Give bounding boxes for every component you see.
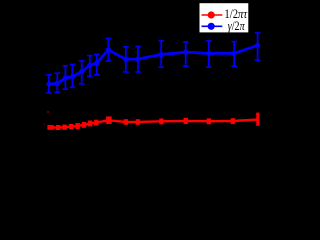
svg-text:γ/2π: γ/2π bbox=[228, 19, 245, 33]
red errorbar point 6 bbox=[82, 122, 86, 128]
legend blue sample line bbox=[202, 25, 223, 27]
blue errorbar point 12 bbox=[183, 42, 189, 66]
red errorbar point 13 bbox=[184, 118, 188, 124]
red errorbar point 3 bbox=[62, 125, 66, 130]
blue errorbar point 1 bbox=[46, 75, 52, 93]
red errorbar point 1 bbox=[47, 125, 53, 130]
red errorbar point 7 bbox=[88, 121, 92, 127]
stray red speck above red series start bbox=[47, 111, 48, 113]
red errorbar point 9 bbox=[106, 116, 112, 124]
faint red speck left of first red point bbox=[44, 124, 45, 125]
blue errorbar point 10 bbox=[135, 46, 141, 72]
blue errorbar point 3 bbox=[63, 66, 69, 90]
red errorbar point 15 bbox=[231, 118, 235, 124]
red errorbar point 12 bbox=[159, 119, 163, 125]
red errorbar point 8 bbox=[94, 120, 98, 126]
blue errorbar point 6 bbox=[87, 56, 93, 77]
blue series gamma/2pi connecting line bbox=[49, 45, 258, 84]
legend red marker bbox=[208, 11, 215, 18]
blue errorbar point 15 bbox=[255, 33, 261, 60]
red errorbar point 4 bbox=[69, 124, 73, 129]
red errorbar point 10 bbox=[124, 119, 128, 125]
blue errorbar point 4 bbox=[70, 64, 76, 87]
legend blue marker bbox=[208, 23, 215, 30]
blue errorbar point 9 bbox=[123, 47, 129, 72]
blue errorbar point 11 bbox=[158, 41, 164, 68]
red series 1/2pi-tau connecting line bbox=[51, 120, 258, 128]
red errorbar point 14 bbox=[207, 118, 211, 124]
red errorbar point 5 bbox=[75, 123, 79, 129]
legend red sample line bbox=[202, 14, 223, 16]
blue errorbar point 5 bbox=[79, 61, 85, 84]
red errorbar point 2 bbox=[56, 125, 60, 130]
legend box bbox=[199, 3, 249, 33]
blue errorbar point 2 bbox=[55, 73, 61, 92]
red errorbar point 11 bbox=[136, 119, 140, 125]
plot background bbox=[0, 0, 275, 172]
blue errorbar point 13 bbox=[206, 41, 212, 68]
blue errorbar point 8 bbox=[106, 38, 112, 61]
blue errorbar point 7 bbox=[94, 54, 100, 74]
red errorbar point 16 bbox=[256, 113, 259, 126]
blue errorbar point 14 bbox=[231, 42, 237, 67]
